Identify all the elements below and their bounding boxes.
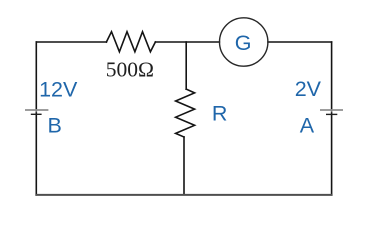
wire top-right horizontal [268, 41, 332, 43]
resistor R (vertical zigzag) [176, 89, 195, 137]
wire right vertical upper [331, 42, 333, 111]
svg-text:2V: 2V [295, 77, 322, 101]
battery B long plate (positive) [25, 109, 48, 111]
wire top-middle horizontal [155, 41, 219, 43]
wire branch vertical upper (node junction at top) [185, 42, 187, 89]
svg-text:A: A [300, 114, 315, 138]
wire left vertical lower [35, 113, 37, 195]
svg-text:R: R [212, 102, 228, 126]
galvanometer U1 circle [220, 18, 268, 66]
wire right vertical lower [331, 113, 333, 195]
wire top-left horizontal [36, 41, 106, 43]
resistor 500ohm (horizontal zigzag) [106, 32, 155, 52]
battery B short plate (negative) [31, 113, 42, 115]
wire branch vertical lower [183, 137, 185, 195]
svg-text:B: B [48, 114, 62, 138]
wire left vertical upper [35, 42, 37, 111]
svg-text:12V: 12V [39, 77, 78, 101]
battery A short plate (negative) [326, 113, 337, 115]
wire bottom horizontal rail [36, 194, 331, 196]
svg-text:500Ω: 500Ω [106, 58, 154, 82]
battery A long plate (positive) [320, 109, 343, 111]
svg-text:G: G [235, 31, 252, 55]
